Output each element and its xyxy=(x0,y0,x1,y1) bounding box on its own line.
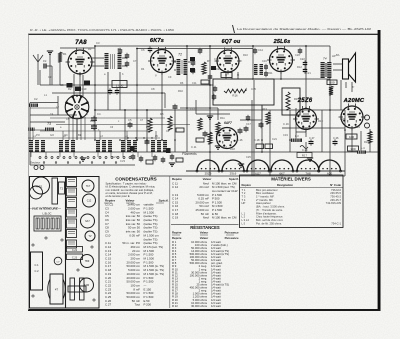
svg-text:C15: C15 xyxy=(251,87,256,91)
svg-text:600: 600 xyxy=(329,81,334,85)
svg-text:100: 100 xyxy=(349,135,354,139)
svg-text:C21: C21 xyxy=(306,71,311,75)
svg-text:CV: CV xyxy=(56,262,60,264)
svg-text:C 19: C 19 xyxy=(172,216,178,220)
svg-text:C5: C5 xyxy=(66,117,70,121)
svg-text:25Z6: 25Z6 xyxy=(205,171,212,175)
svg-text:C9: C9 xyxy=(168,75,172,79)
svg-text:C.16: C.16 xyxy=(237,138,243,142)
svg-text:30.000 ohms: 30.000 ohms xyxy=(191,304,208,308)
svg-text:Repère: Repère xyxy=(242,183,252,187)
svg-text:T4: T4 xyxy=(323,57,327,61)
svg-text:300: 300 xyxy=(350,147,355,151)
svg-text:4T: 4T xyxy=(55,288,59,292)
svg-text:R16: R16 xyxy=(232,94,238,98)
svg-text:R8: R8 xyxy=(203,71,207,75)
svg-text:Secteur: Secteur xyxy=(30,161,41,165)
svg-text:PO: PO xyxy=(36,133,40,137)
svg-text:C10: C10 xyxy=(82,87,87,91)
svg-text:Neuf: Neuf xyxy=(203,216,209,220)
svg-text:Spécif.: Spécif. xyxy=(159,199,169,203)
svg-text:C 12: C 12 xyxy=(172,185,178,189)
svg-text:R13: R13 xyxy=(262,107,267,111)
svg-text:C1: C1 xyxy=(43,59,47,63)
svg-text:C12: C12 xyxy=(214,57,219,61)
svg-text:L 5: L 5 xyxy=(242,221,246,225)
svg-text:C4: C4 xyxy=(97,112,101,116)
svg-text:Repère: Repère xyxy=(172,177,182,181)
svg-text:R4: R4 xyxy=(141,67,145,71)
svg-text:HP: HP xyxy=(242,201,246,205)
svg-text:Repère: Repère xyxy=(172,236,182,240)
svg-text:C25: C25 xyxy=(246,155,251,159)
svg-text:BE: BE xyxy=(78,133,82,137)
svg-text:Pot. de filt. 250 ohms.: Pot. de filt. 250 ohms. xyxy=(256,221,282,225)
svg-text:C.27: C.27 xyxy=(105,303,111,307)
svg-text:R15: R15 xyxy=(294,97,299,101)
svg-text:BA: BA xyxy=(336,53,340,57)
svg-text:Valeur: Valeur xyxy=(200,236,209,240)
svg-text:C.19: C.19 xyxy=(283,122,289,126)
svg-text:6A7: 6A7 xyxy=(85,220,90,223)
svg-text:1 000: 1 000 xyxy=(116,84,124,88)
svg-text:Valeur: Valeur xyxy=(203,177,213,181)
svg-text:C22: C22 xyxy=(300,57,305,61)
svg-text:L.3: L.3 xyxy=(295,134,299,138)
svg-text:R10: R10 xyxy=(243,53,248,57)
svg-text:C14: C14 xyxy=(258,48,263,52)
svg-text:—VUE INTÉRIEURE—: —VUE INTÉRIEURE— xyxy=(28,206,62,211)
svg-text:Désignation: Désignation xyxy=(277,183,293,187)
svg-text:Spécif.: Spécif. xyxy=(229,177,239,181)
svg-text:C3: C3 xyxy=(96,41,100,45)
svg-text:C.26: C.26 xyxy=(333,136,339,140)
svg-text:C.18: C.18 xyxy=(254,138,260,142)
svg-text:CV1: CV1 xyxy=(112,155,118,159)
svg-text:MATÉRIEL DIVERS: MATÉRIEL DIVERS xyxy=(271,177,311,182)
svg-text:R1: R1 xyxy=(63,52,67,56)
svg-text:Repère: Repère xyxy=(172,230,182,234)
svg-text:N° Code: N° Code xyxy=(330,183,341,187)
svg-text:0.05 mF: 0.05 mF xyxy=(129,233,140,237)
svg-text:L.4: L.4 xyxy=(361,146,365,150)
svg-text:C5: C5 xyxy=(128,118,132,122)
svg-text:R20: R20 xyxy=(364,140,369,144)
svg-text:P 200: P 200 xyxy=(144,303,152,307)
svg-text:R.-R. • LE. «GRAND» PRIX. TOUS: R.-R. • LE. «GRAND» PRIX. TOUS-COURANTS … xyxy=(30,28,174,32)
svg-text:6Q7 ou: 6Q7 ou xyxy=(222,39,241,45)
svg-text:T2: T2 xyxy=(178,53,182,57)
svg-text:R9: R9 xyxy=(199,48,203,52)
svg-text:Tout: Tout xyxy=(135,303,141,307)
svg-text:C3: C3 xyxy=(48,75,52,79)
svg-text:C13: C13 xyxy=(216,67,221,71)
svg-text:R6: R6 xyxy=(180,81,184,85)
svg-text:L.BLOC: L.BLOC xyxy=(43,213,52,216)
svg-text:R10: R10 xyxy=(178,89,183,93)
svg-text:CV2: CV2 xyxy=(120,159,126,163)
svg-text:Tr: Tr xyxy=(352,85,354,89)
svg-text:C.24: C.24 xyxy=(302,148,308,152)
svg-text:C16: C16 xyxy=(262,59,267,63)
svg-text:7A8: 7A8 xyxy=(75,40,87,46)
svg-text:7B9: 7B9 xyxy=(85,260,90,263)
svg-text:C7: C7 xyxy=(133,59,137,63)
svg-text:C.1: C.1 xyxy=(34,263,39,267)
svg-text:R7: R7 xyxy=(207,59,211,63)
svg-text:T1: T1 xyxy=(117,48,121,52)
svg-text:C.23: C.23 xyxy=(72,256,78,259)
svg-text:20 mmf: 20 mmf xyxy=(199,185,209,189)
svg-text:R3: R3 xyxy=(88,47,92,51)
svg-text:C2: C2 xyxy=(34,97,38,101)
svg-text:C11: C11 xyxy=(192,81,197,85)
svg-text:R2: R2 xyxy=(68,87,72,91)
svg-text:25Z6: 25Z6 xyxy=(297,98,313,104)
svg-text:TV: TV xyxy=(88,235,92,238)
svg-text:Filaments: Filaments xyxy=(182,152,197,156)
svg-text:C8: C8 xyxy=(151,87,155,91)
svg-text:C6: C6 xyxy=(141,48,145,52)
svg-text:C20: C20 xyxy=(295,53,300,57)
svg-text:C10: C10 xyxy=(105,233,111,237)
svg-text:C.11: C.11 xyxy=(191,145,197,149)
svg-text:1/4 watt: 1/4 watt xyxy=(211,304,221,308)
svg-text:6AF7: 6AF7 xyxy=(224,121,232,125)
svg-text:Puissance: Puissance xyxy=(225,236,239,240)
svg-text:C21: C21 xyxy=(272,137,277,141)
svg-text:R 22: R 22 xyxy=(172,304,178,308)
svg-text:R12: R12 xyxy=(297,65,302,69)
svg-text:H P1: H P1 xyxy=(36,185,43,189)
svg-text:R5: R5 xyxy=(160,112,164,116)
svg-text:GO: GO xyxy=(50,133,54,137)
svg-text:R14: R14 xyxy=(355,125,360,129)
svg-text:C12: C12 xyxy=(190,107,195,111)
svg-text:RÉSISTANCES: RÉSISTANCES xyxy=(190,225,220,230)
svg-text:C.27: C.27 xyxy=(309,136,315,140)
svg-text:A20MC: A20MC xyxy=(343,98,365,104)
svg-text:6K7s: 6K7s xyxy=(150,38,164,44)
svg-text:R19: R19 xyxy=(318,119,323,123)
svg-text:C.22: C.22 xyxy=(72,249,78,252)
svg-text:OC: OC xyxy=(64,133,68,137)
svg-text:7K7: 7K7 xyxy=(86,185,91,188)
svg-text:M 100 blan. en CM: M 100 blan. en CM xyxy=(212,216,237,220)
svg-text:C12: C12 xyxy=(87,200,92,203)
svg-text:C17: C17 xyxy=(246,122,251,126)
svg-text:R11: R11 xyxy=(268,71,273,75)
svg-text:CONDENSATEURS: CONDENSATEURS xyxy=(115,176,157,181)
svg-text:La Documentation du Radioamate: La Documentation du Radioamateur-Radio. … xyxy=(237,27,371,31)
svg-text:R17: R17 xyxy=(302,154,308,158)
svg-text:C9: C9 xyxy=(60,83,64,87)
svg-text:C28: C28 xyxy=(340,117,345,121)
svg-text:T3: T3 xyxy=(47,122,51,126)
svg-text:C19: C19 xyxy=(283,133,288,137)
svg-text:R18: R18 xyxy=(230,147,235,151)
svg-text:R11: R11 xyxy=(220,116,225,120)
svg-text:734-C-1: 734-C-1 xyxy=(331,221,341,225)
svg-text:C.2: C.2 xyxy=(34,269,39,273)
svg-text:Valeur: Valeur xyxy=(200,230,209,234)
svg-text:et de tension pour E.: et de tension pour E. xyxy=(106,194,131,198)
svg-text:25L6: 25L6 xyxy=(230,171,237,175)
svg-text:R12: R12 xyxy=(222,145,227,149)
svg-text:Puissance: Puissance xyxy=(225,230,239,234)
svg-text:742-816-239: 742-816-239 xyxy=(326,201,342,205)
svg-text:25L6s: 25L6s xyxy=(273,39,291,45)
